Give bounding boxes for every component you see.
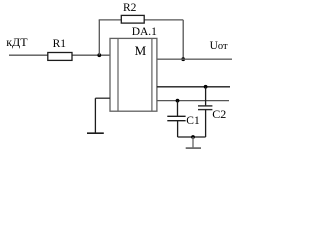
ground bar left [87, 132, 104, 134]
resistor R2 [121, 15, 144, 23]
resistor R1 [48, 53, 72, 61]
op-amp U1 IC DA.1 outer box [110, 38, 157, 111]
label C2 [212, 107, 226, 122]
wire ground stem right [192, 137, 194, 148]
label кДТ [6, 35, 27, 50]
wire bottom connecting C1 C2 [178, 136, 206, 138]
wire C2 bottom lead [205, 110, 207, 137]
capacitor C1 top plate [167, 115, 185, 117]
label C1 [186, 115, 199, 127]
wire R2 left vertical [98, 20, 100, 55]
label R2 [123, 2, 136, 14]
wire IC left lower pin [95, 97, 110, 99]
node junction dot at R2 left tap [97, 53, 101, 57]
wire C2 top lead [205, 87, 207, 106]
wire C1 bottom lead [177, 121, 179, 137]
wire output pin 3 [157, 100, 229, 102]
ground bar right [186, 147, 201, 149]
IC DA.1 inner right field line [151, 38, 153, 111]
wire C1 top lead [177, 101, 179, 117]
IC DA.1 inner left field line [117, 38, 119, 111]
node junction dot C1 top [176, 99, 180, 103]
capacitor C2 bottom plate [198, 109, 212, 111]
wire output pin 1 to Uот [157, 58, 232, 60]
label Uот [210, 40, 228, 52]
label M [135, 43, 147, 59]
label DA.1 [132, 26, 157, 38]
wire ground stem left [94, 98, 96, 133]
node junction dot ground 2 [191, 135, 195, 139]
wire output pin 2 [157, 86, 230, 88]
node junction dot R2 right on output wire [181, 57, 185, 61]
wire R2 right vertical [182, 20, 184, 59]
wire R2 top horizontal [99, 19, 184, 21]
capacitor C2 top plate [198, 105, 212, 107]
node junction dot C2 top [204, 85, 208, 89]
wire input from кДТ to IC left edge [9, 54, 110, 56]
capacitor C1 bottom plate [167, 120, 185, 122]
label R1 [53, 38, 66, 50]
